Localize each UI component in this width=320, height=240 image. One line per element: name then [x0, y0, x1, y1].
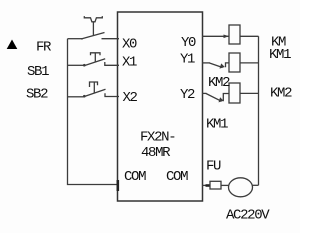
- right bus wire: [258, 36, 260, 185]
- SB1 right terminal hook: [105, 62, 119, 65]
- SB2 pivot dot: [83, 95, 86, 98]
- indicator triangle: [7, 40, 18, 50]
- svg-text:X2: X2: [123, 90, 138, 106]
- KM2 contact terminal hook: [226, 63, 230, 67]
- svg-text:FR: FR: [36, 39, 52, 55]
- wire FR row left: [68, 38, 84, 40]
- svg-text:FX2N-: FX2N-: [140, 129, 175, 145]
- KM1 contact terminal hook: [223, 94, 229, 102]
- svg-text:X0: X0: [122, 36, 137, 52]
- wire Y1 row: [202, 62, 210, 64]
- KM1 NC contact blade: [206, 94, 222, 102]
- svg-text:SB2: SB2: [26, 86, 48, 102]
- wire FR row right to X0: [102, 38, 120, 40]
- wire fuse to source: [221, 184, 229, 186]
- wire source to bus: [253, 184, 259, 186]
- FR contact blade: [81, 33, 105, 40]
- thermal stem: [92, 22, 94, 36]
- svg-text:X1: X1: [122, 55, 137, 71]
- svg-text:COM: COM: [166, 169, 188, 185]
- svg-text:FU: FU: [206, 158, 221, 174]
- svg-text:SB1: SB1: [27, 64, 49, 80]
- svg-text:Y0: Y0: [181, 35, 196, 51]
- SB2 actuator T: [90, 82, 98, 87]
- wire coil KM2 to bus: [240, 92, 259, 94]
- svg-text:Y1: Y1: [180, 51, 195, 67]
- wire coil KM to bus: [240, 35, 259, 37]
- arrowhead KM1 contact: [219, 97, 224, 102]
- left bus wire: [68, 39, 119, 185]
- svg-text:KM1: KM1: [206, 117, 228, 133]
- svg-text:Y2: Y2: [180, 87, 195, 103]
- svg-text:KM1: KM1: [269, 47, 291, 63]
- wire Y0 row: [202, 35, 229, 37]
- fuse FU: [210, 181, 221, 189]
- wire Y2 row: [202, 92, 207, 94]
- wire SB1 row left: [68, 64, 84, 66]
- KM2 NC contact blade: [210, 63, 223, 68]
- arrowhead KM2 contact: [220, 63, 225, 68]
- SB1 contact blade: [84, 59, 105, 66]
- coil KM2: [229, 83, 240, 103]
- wire SB2 row left: [68, 96, 84, 98]
- svg-text:KM2: KM2: [208, 75, 230, 91]
- SB1 pivot dot: [83, 64, 86, 67]
- svg-text:COM: COM: [124, 169, 146, 185]
- SB2 right terminal hook: [105, 93, 119, 96]
- coil KM: [229, 25, 240, 44]
- COM left terminal tick: [117, 180, 120, 191]
- SB2 contact blade: [84, 89, 106, 96]
- arrowhead COM right: [206, 184, 210, 187]
- PLC box FX2N-48MR: [118, 12, 203, 201]
- svg-text:AC220V: AC220V: [226, 207, 270, 223]
- arrowhead Y0: [224, 35, 230, 39]
- coil KM1: [229, 53, 240, 72]
- AC source circle: [229, 178, 253, 197]
- svg-text:KM2: KM2: [270, 85, 292, 101]
- svg-text:48MR: 48MR: [141, 145, 171, 161]
- wire COM right to fuse: [202, 184, 210, 186]
- wire coil KM1 to bus: [240, 62, 259, 64]
- SB1 actuator T: [91, 53, 101, 56]
- thermal element FR: [84, 16, 102, 22]
